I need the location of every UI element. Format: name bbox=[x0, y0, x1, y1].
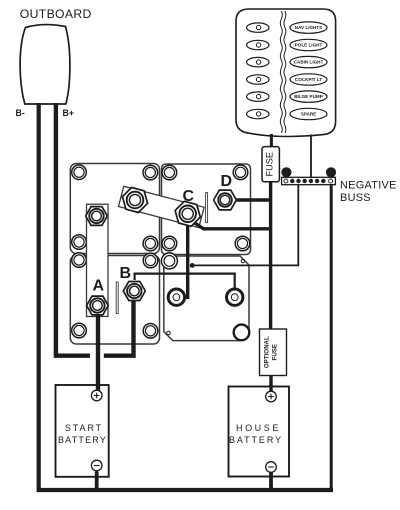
start battery positive terminal bbox=[91, 390, 102, 401]
start battery box bbox=[56, 385, 109, 477]
wire outboard B+ down and right to jump bbox=[56, 103, 90, 356]
svg-text:D: D bbox=[221, 173, 233, 190]
wire terminal C down to ACR left terminal bbox=[184, 218, 188, 297]
svg-text:SPARE: SPARE bbox=[301, 112, 317, 117]
svg-text:NAV LIGHTS: NAV LIGHTS bbox=[295, 25, 322, 30]
mounting hole BL box bottom-right bbox=[143, 324, 158, 339]
toggle switch 3 bbox=[247, 57, 269, 66]
wire panel to negative buss bbox=[310, 135, 312, 179]
terminal stud D bbox=[214, 190, 237, 210]
svg-text:BATTERY: BATTERY bbox=[229, 435, 283, 445]
switch label SPARE bbox=[290, 108, 327, 119]
wire house battery negative to bottom buss bbox=[269, 473, 273, 491]
jumper strap C bbox=[119, 186, 205, 227]
svg-text:BUSS: BUSS bbox=[340, 192, 371, 204]
terminal stud B bbox=[123, 282, 145, 301]
terminal stud C bbox=[175, 201, 200, 226]
wire terminal A to start battery positive bbox=[96, 311, 100, 391]
mounting hole TL box top-right bbox=[143, 165, 158, 180]
negative buss post left bbox=[282, 168, 291, 177]
ACR screw bottom-left bbox=[167, 331, 171, 335]
terminal stud on strap left bbox=[122, 188, 147, 213]
switch label POLE LIGHT bbox=[290, 39, 327, 50]
negative buss post right bbox=[326, 168, 335, 177]
mounting hole TR box bottom-left bbox=[162, 236, 177, 251]
wire fuse to optional fuse riser bbox=[269, 182, 272, 329]
toggle switch 5 bbox=[247, 92, 269, 101]
toggle switch 6 bbox=[247, 109, 269, 118]
svg-text:FUSE: FUSE bbox=[272, 344, 279, 361]
switch label NAV LIGHTS bbox=[290, 22, 327, 33]
panel divider wavy line 2 bbox=[284, 11, 286, 133]
wire ACR ground to negative buss bbox=[192, 185, 298, 265]
switch label BILGE PUMP bbox=[290, 91, 327, 102]
switch label CABIN LIGHT bbox=[290, 56, 327, 67]
svg-text:POLE LIGHT: POLE LIGHT bbox=[295, 43, 323, 48]
battery switch body upper-left bbox=[70, 164, 159, 254]
spring bar near A bbox=[116, 282, 118, 314]
terminal stud top of strap A bbox=[86, 207, 108, 226]
toggle switch 1 bbox=[247, 23, 269, 32]
svg-text:OUTBOARD: OUTBOARD bbox=[20, 7, 92, 21]
ACR screw top-right bbox=[241, 259, 245, 263]
wire optional fuse to house battery positive bbox=[269, 376, 272, 393]
mounting hole TR box bottom-right bbox=[235, 236, 250, 251]
svg-text:CABIN LIGHT: CABIN LIGHT bbox=[294, 60, 324, 65]
house battery negative terminal bbox=[266, 462, 277, 473]
label NEGATIVE BUSS bbox=[340, 180, 397, 205]
svg-text:BATTERY: BATTERY bbox=[58, 435, 107, 445]
mounting hole BL box top-right bbox=[143, 253, 158, 268]
ACR left terminal bbox=[168, 289, 184, 305]
wire terminal B to ACR right terminal bbox=[135, 274, 235, 289]
svg-text:START: START bbox=[65, 423, 103, 433]
battery switch body lower-left bbox=[70, 256, 159, 345]
ACR right terminal bbox=[227, 289, 243, 305]
svg-text:NEGATIVE: NEGATIVE bbox=[340, 180, 397, 192]
svg-text:FUSE: FUSE bbox=[265, 152, 275, 177]
mounting hole ACR bottom-right bbox=[234, 325, 250, 341]
wire terminal B to jump junction bbox=[104, 299, 134, 356]
switch label COCKPIT LT bbox=[290, 74, 327, 85]
start battery label bbox=[58, 423, 107, 445]
svg-text:B: B bbox=[120, 265, 132, 282]
mounting hole TR box top-left bbox=[162, 165, 177, 180]
outboard motor cowl bbox=[20, 25, 70, 104]
svg-text:C: C bbox=[183, 188, 195, 205]
mounting hole BL box top-left bbox=[72, 253, 87, 268]
svg-text:BILGE PUMP: BILGE PUMP bbox=[294, 94, 323, 99]
mounting hole TL box top-left bbox=[72, 165, 87, 180]
terminal stud A bbox=[87, 296, 109, 315]
fuse holder bbox=[262, 147, 279, 182]
start battery negative terminal bbox=[91, 460, 102, 471]
svg-text:A: A bbox=[93, 278, 105, 295]
mounting hole ACR top-left bbox=[161, 253, 177, 269]
mounting hole TL box bottom-right bbox=[143, 236, 158, 251]
optional fuse label bbox=[264, 336, 279, 368]
optional fuse holder bbox=[260, 329, 287, 376]
svg-text:B+: B+ bbox=[63, 108, 75, 118]
wire start battery negative to bottom buss bbox=[95, 472, 99, 491]
wire terminal C bend to house positive riser bbox=[190, 220, 271, 229]
house battery box bbox=[229, 387, 290, 477]
jumper strap A bbox=[87, 204, 109, 316]
toggle switch 4 bbox=[247, 75, 269, 84]
wire panel to fuse bbox=[270, 134, 273, 147]
ACR relay box bbox=[164, 256, 249, 341]
svg-text:COCKPIT LT: COCKPIT LT bbox=[295, 77, 322, 82]
mounting hole BL box bottom-left bbox=[72, 323, 87, 338]
negative buss bar bbox=[282, 177, 336, 184]
panel divider wavy line 1 bbox=[280, 11, 282, 133]
switch panel bbox=[236, 9, 336, 136]
mounting hole TL box bottom-left bbox=[72, 235, 87, 250]
svg-text:B-: B- bbox=[16, 108, 25, 118]
wire negative buss to bottom buss riser bbox=[330, 184, 333, 491]
svg-text:OPTIONAL: OPTIONAL bbox=[264, 336, 271, 368]
toggle switch 2 bbox=[247, 40, 269, 49]
house battery label bbox=[229, 423, 283, 445]
negative buss terminals bbox=[284, 179, 333, 183]
ACR ground node dot bbox=[190, 263, 195, 268]
wire terminal D to riser bbox=[237, 198, 273, 201]
house battery positive terminal bbox=[266, 391, 277, 402]
svg-text:HOUSE: HOUSE bbox=[236, 423, 281, 433]
relay body upper-right bbox=[162, 164, 251, 255]
wire outboard B- to bottom buss to negative buss right riser bbox=[39, 103, 333, 490]
mounting hole TR box top-right bbox=[233, 165, 248, 180]
spring bar near D bbox=[206, 193, 208, 223]
